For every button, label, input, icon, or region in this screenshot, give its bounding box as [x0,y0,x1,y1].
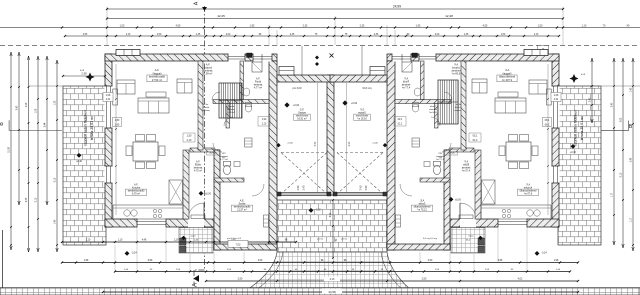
svg-text:4,99: 4,99 [330,212,332,217]
flue block [412,53,418,58]
svg-text:2,50: 2,50 [428,260,433,262]
svg-text:16,91 m²: 16,91 m² [357,118,367,121]
svg-text:Tároló: Tároló [228,105,235,108]
partition bath/stair [421,61,425,100]
level marker hall right [449,197,454,202]
svg-text:1,95: 1,95 [416,24,421,27]
svg-text:2,40: 2,40 [590,97,592,102]
svg-text:+0,00: +0,00 [372,143,378,145]
staircase right unit [438,80,458,124]
fridge unit [482,180,496,204]
curb line right [381,252,409,295]
terrace paving right [558,86,601,245]
door room [400,184,412,196]
svg-text:6,09 m²: 6,09 m² [452,73,461,76]
room protrusion south wall [387,244,450,250]
level marker garage door right [383,143,387,147]
svg-text:kerámia: kerámia [428,108,437,111]
svg-text:2,35: 2,35 [303,24,308,27]
svg-text:Tároló: Tároló [203,106,210,109]
door hall [431,117,440,126]
svg-text:szürkült beton födelken: szürkült beton födelken [84,110,88,146]
svg-text:4,55: 4,55 [176,24,181,27]
shower [402,62,412,72]
level marker garage right [342,100,347,105]
svg-text:-0,02: -0,02 [468,236,474,238]
svg-text:2,10: 2,10 [472,139,477,142]
svg-text:1,42: 1,42 [631,87,633,92]
svg-text:2,50: 2,50 [238,278,243,281]
svg-text:1,77 m²: 1,77 m² [220,158,228,161]
svg-text:1,10: 1,10 [126,34,131,36]
garage window dim line [301,46,303,75]
shower [252,62,262,72]
svg-text:+0,30: +0,30 [76,161,83,163]
svg-text:1,50: 1,50 [157,34,162,36]
svg-text:27,53 m²: 27,53 m² [502,78,512,82]
svg-text:2,50: 2,50 [258,260,263,262]
window left wall living [104,86,112,128]
sofa [495,98,526,113]
window top wall stair [228,53,245,61]
svg-text:Tároló: Tároló [429,105,436,108]
svg-text:2,10: 2,10 [187,139,192,142]
svg-text:5,30: 5,30 [315,141,317,146]
party wall between garages [327,75,334,195]
radiator hall [191,215,205,219]
svg-text:2,44: 2,44 [45,122,47,127]
garage door swing dashed [281,152,327,154]
property boundary dashed line [0,44,640,46]
door hall [224,117,233,126]
svg-text:2,40: 2,40 [612,102,614,107]
svg-text:4,77 m²: 4,77 m² [402,87,410,90]
svg-text:2,10: 2,10 [86,240,91,242]
armchair 1 [117,80,135,94]
curb level markers [125,251,130,256]
svg-text:terasz 25,01 m²: terasz 25,01 m² [580,115,584,140]
svg-text:12,57 m²: 12,57 m² [417,209,427,212]
room protrusion west wall [444,150,450,250]
svg-text:1,95: 1,95 [250,24,255,27]
svg-text:12,45: 12,45 [217,14,225,18]
outer wall left [105,54,112,227]
boxed dims left terrace [103,93,113,102]
window left wall kitchen [551,166,559,183]
window left wall kitchen [104,166,112,183]
svg-text:±0,00: ±0,00 [205,194,211,196]
radiator hall [459,215,473,219]
svg-text:A: A [193,283,199,287]
svg-text:4,50 m²: 4,50 m² [429,111,437,114]
svg-text:4,55: 4,55 [83,34,88,36]
svg-text:+0,00: +0,00 [351,102,358,105]
svg-text:1,17: 1,17 [631,217,633,222]
svg-text:pm 0,6 pm 0,6: pm 0,6 pm 0,6 [422,238,437,240]
bottom wall kitchen [105,219,214,227]
svg-text:pm 3,00: pm 3,00 [293,87,302,90]
garage window sill [279,67,294,76]
svg-text:2,00: 2,00 [435,34,440,36]
svg-text:2,10: 2,10 [262,124,267,126]
level marker hall left [199,191,204,196]
room protrusion west wall [214,150,220,250]
garage side wall [387,61,395,250]
svg-text:terasz 25,01 m²: terasz 25,01 m² [90,115,94,140]
partition pantry [226,104,230,129]
sideboard [547,89,552,105]
door bath [212,92,220,100]
svg-text:1,90: 1,90 [262,119,267,121]
flue block [247,53,253,58]
dim line top 3 [0,27,640,29]
dim line top 4 [65,35,559,37]
svg-text:1,80: 1,80 [115,120,120,122]
svg-text:Tároló: Tároló [454,106,461,109]
svg-text:±0,00: ±0,00 [455,200,461,202]
sink [534,210,540,216]
chimney left [116,50,140,56]
svg-text:kerámia: kerámia [227,108,236,111]
window size labels [543,118,552,127]
svg-text:pm 3,00: pm 3,00 [362,87,371,90]
vertical dims right [591,58,593,123]
svg-text:4,50 m²: 4,50 m² [227,111,235,114]
sofa [138,98,169,113]
svg-text:1,35: 1,35 [55,100,57,105]
svg-text:4,13: 4,13 [330,278,335,281]
svg-text:6,09 m²: 6,09 m² [204,73,213,76]
svg-text:kerámia: kerámia [202,109,211,112]
svg-text:szürkült beton födelken: szürkült beton födelken [574,110,578,146]
svg-text:1,98: 1,98 [84,260,89,262]
partition bath/stair [240,61,244,100]
partition living/stair left [198,61,203,150]
svg-text:12,57 m²: 12,57 m² [237,209,247,212]
hob [507,209,510,212]
door room [252,184,264,196]
armchair 2 [177,79,192,93]
door bath [444,92,452,100]
porch steps dark [478,238,484,245]
svg-text:1,90: 1,90 [397,119,402,121]
dim line bottom D [206,280,578,282]
svg-text:1,50: 1,50 [120,24,125,27]
sink [124,210,130,216]
svg-text:1,08: 1,08 [106,95,111,97]
partition bath south [213,100,269,104]
svg-text:1,10: 1,10 [582,24,587,27]
svg-text:kerámia: kerámia [453,109,462,112]
svg-text:1,10: 1,10 [118,240,123,242]
svg-text:2,44: 2,44 [106,99,111,101]
dim line bottom C [115,271,570,273]
svg-text:2,44: 2,44 [554,99,559,101]
svg-text:4,77 m²: 4,77 m² [254,87,262,90]
svg-text:WC: WC [438,153,442,155]
svg-text:4,48: 4,48 [142,240,147,242]
svg-text:1,35: 1,35 [196,34,201,36]
svg-text:5,19: 5,19 [55,177,57,182]
svg-text:1,98: 1,98 [554,260,559,262]
partition hall top [190,148,214,152]
terrace edge ext right [601,85,640,87]
terrace paving left [63,86,106,245]
dining table [133,142,158,161]
garage window sill [370,67,385,76]
svg-text:2,98: 2,98 [26,102,28,107]
driveway center vertical dim [332,200,334,258]
svg-text:pm 06: pm 06 [317,239,324,241]
svg-text:2,50: 2,50 [422,278,427,281]
svg-text:1,50: 1,50 [472,135,477,138]
label kitchen [125,189,146,195]
svg-text:-0,24: -0,24 [541,253,547,255]
svg-text:2,35: 2,35 [374,34,379,36]
door wc [213,143,222,152]
svg-text:1,77 m²: 1,77 m² [436,158,444,161]
svg-text:4,75 m²: 4,75 m² [462,170,470,173]
svg-text:5,89: 5,89 [148,260,153,262]
outer wall left [552,54,559,227]
svg-text:2,80: 2,80 [115,124,120,126]
svg-text:1,20: 1,20 [174,240,179,242]
sidewalk paving strip bottom [0,288,640,295]
partition hall top [450,148,474,152]
svg-text:-0,02: -0,02 [315,210,321,212]
svg-text:5,30: 5,30 [347,141,349,146]
level star right of wall [570,74,579,83]
svg-text:3,45: 3,45 [631,157,633,162]
svg-text:1,35: 1,35 [464,34,469,36]
svg-text:2,50: 2,50 [364,185,367,190]
corner boxed label right [538,46,549,55]
svg-text:2,80: 2,80 [544,124,549,126]
level star left of wall [86,73,95,82]
garage interior dim [346,83,348,192]
window left wall living [551,86,559,128]
svg-text:26/2,05: 26/2,05 [209,153,217,155]
sideboard [113,89,118,105]
coffee table [146,92,166,97]
window size labels [113,118,122,127]
entrance door opening [460,218,476,227]
garage side wall [269,61,277,250]
dim line bottom E overall [103,291,578,293]
svg-text:2,10: 2,10 [397,124,402,126]
interior dim line left unit [115,64,117,215]
level diamonds center [315,56,319,60]
svg-text:2,40: 2,40 [303,185,306,190]
svg-text:4,02: 4,02 [518,278,523,281]
outer wall top [105,54,277,61]
bath toilet [245,104,251,112]
kitchen counter [113,205,183,219]
washbasin [243,88,250,96]
svg-text:A: A [194,1,200,5]
dining table [506,142,531,161]
label room [411,205,432,211]
fence link left [63,75,105,77]
partition bath south [395,100,451,104]
svg-text:5,19: 5,19 [36,197,38,202]
terrace edge ext left [28,85,63,87]
radiator room [264,215,269,227]
entrance porch tiles [451,228,485,253]
porch dim box [228,240,248,247]
driveway paving center [277,200,387,252]
svg-text:16,91 m²: 16,91 m² [297,118,307,121]
dim line bottom A [62,241,296,243]
svg-text:1,77: 1,77 [612,192,614,197]
label garage [354,114,370,120]
svg-text:5,43: 5,43 [17,105,19,110]
svg-text:6,75 m²: 6,75 m² [524,193,532,196]
svg-text:-0,24: -0,24 [131,253,137,255]
bath toilet [412,104,418,112]
wc basin [424,162,430,167]
entrance door arc [188,203,204,219]
svg-text:1,08: 1,08 [36,108,38,113]
outer wall top [387,54,559,61]
svg-text:pm 06: pm 06 [341,239,348,241]
coffee table [498,92,518,97]
label room [231,205,252,211]
radiator room [396,215,401,227]
svg-text:kerámia: kerámia [435,155,444,158]
garage door swing dashed [337,152,383,154]
bottom wall kitchen [450,219,559,227]
label kitchen [517,189,538,195]
label living room [497,75,517,82]
armchair 1 [529,80,547,94]
terrace level marker left [77,153,82,158]
svg-text:1,80: 1,80 [544,120,549,122]
vertical dims left [10,52,12,250]
wc toilet [433,165,440,174]
svg-text:24,98: 24,98 [329,290,336,294]
driveway apron paving [239,252,417,295]
door wc [442,143,451,152]
garage door [281,192,327,194]
dim line top 1 overall [107,8,563,10]
garage front wall [277,75,334,82]
svg-text:10,98: 10,98 [9,146,11,152]
partition pantry [435,104,439,129]
svg-text:2,62: 2,62 [621,117,623,122]
interior dim line right unit [547,64,549,215]
svg-text:5,89: 5,89 [498,260,503,262]
partition living/stair right [461,61,466,150]
svg-text:26/2,05: 26/2,05 [447,153,455,155]
wc basin [234,162,240,167]
garage front wall [330,75,387,82]
radiator hall2 [245,138,253,147]
level marker garage door left [276,143,280,147]
driveway level marker [309,208,314,213]
room protrusion south wall [214,244,277,250]
partition kitchen/hall [475,150,481,219]
plot line left edge [2,230,4,288]
garage window dim line [361,46,363,75]
porch level marker [478,236,482,240]
level marker garage left [284,102,289,107]
svg-text:1,08: 1,08 [554,95,559,97]
wc toilet [223,165,230,174]
fridge unit [169,180,183,204]
witness lines top [106,7,108,45]
svg-text:12,48: 12,48 [445,14,453,18]
entrance door opening [188,218,204,227]
boxed dims right terrace [551,93,561,102]
partition kitchen/hall [183,150,189,219]
partition wc south [214,178,244,182]
svg-text:+0,30: +0,30 [570,152,577,154]
washbasin [414,88,421,96]
terrace sliding door bottom wall [498,218,527,227]
chimney right [524,50,548,56]
garage interior dim [317,83,319,192]
svg-text:7,03: 7,03 [236,243,241,246]
svg-text:kerámia: kerámia [220,155,229,158]
svg-text:5,19: 5,19 [621,172,623,177]
partition wc south [420,178,450,182]
staircase left unit [219,83,242,118]
svg-text:6,75 m²: 6,75 m² [132,193,140,196]
garage door [337,192,383,194]
label living room [147,75,167,82]
svg-text:1,10: 1,10 [534,34,539,36]
hob [153,209,156,212]
axis marker cross [330,54,334,58]
svg-text:4,75 m²: 4,75 m² [194,170,202,173]
curb line left [248,252,283,295]
radiator hall2 [412,138,420,147]
window top wall bath [392,53,411,61]
svg-text:2,35: 2,35 [360,24,365,27]
svg-text:1,50: 1,50 [538,24,543,27]
terrace sliding door bottom wall [137,218,166,227]
dim line top 2 halves [107,18,563,20]
witness lines bottom [114,245,116,271]
svg-text:2,40: 2,40 [359,185,362,190]
svg-text:24,99: 24,99 [393,5,401,9]
window top wall bath [253,53,272,61]
svg-text:+0,00: +0,00 [287,143,293,145]
svg-text:-0,02: -0,02 [191,236,197,238]
svg-text:2,35: 2,35 [290,34,295,36]
svg-text:WC: WC [222,153,226,155]
section line A-A [204,6,206,270]
armchair 2 [472,79,487,93]
porch level marker [181,236,185,240]
svg-text:+0,00: +0,00 [293,104,300,107]
dim line bottom B [62,262,578,264]
svg-text:2,50: 2,50 [297,185,300,190]
svg-text:1,50: 1,50 [187,135,192,138]
svg-text:1,49: 1,49 [55,219,57,224]
svg-text:2,00: 2,00 [226,34,231,36]
svg-text:27,53 m²: 27,53 m² [152,78,162,82]
svg-text:4,55: 4,55 [483,24,488,27]
entrance porch tiles [179,228,213,253]
entrance door arc [460,203,476,219]
svg-text:4,35: 4,35 [26,197,28,202]
svg-text:A.Sz.: A.Sz. [203,103,209,106]
porch steps dark [180,238,186,245]
svg-text:2,38: 2,38 [81,72,87,76]
label garage [294,114,310,120]
